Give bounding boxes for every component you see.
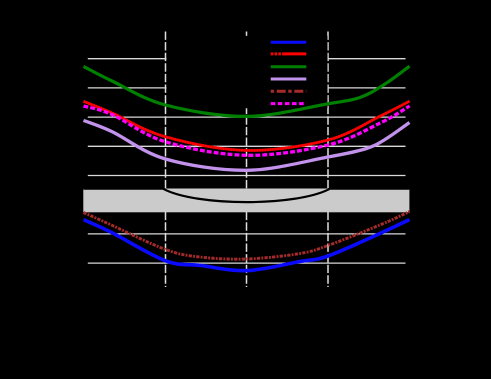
blue curve — [84, 220, 410, 271]
violet curve — [84, 120, 410, 170]
red dotted curve (solid core) — [84, 101, 410, 150]
black membrane profile curve — [84, 189, 410, 202]
legend brown sample — [271, 90, 307, 93]
vertical dashed gridlines — [166, 32, 329, 288]
legend box (black, hides gridlines) — [167, 36, 328, 109]
legend green sample — [271, 65, 307, 68]
legend red sample — [271, 52, 307, 55]
gray substrate band — [83, 189, 409, 213]
horizontal gridlines — [88, 59, 406, 263]
magenta dashed curve — [84, 106, 410, 155]
red dotted curve (texture overlay) — [84, 101, 410, 150]
legend violet sample — [271, 78, 307, 81]
green curve — [84, 66, 410, 116]
brown dashed curve — [84, 212, 410, 260]
legend blue sample — [271, 41, 307, 44]
legend magenta sample — [271, 102, 307, 105]
